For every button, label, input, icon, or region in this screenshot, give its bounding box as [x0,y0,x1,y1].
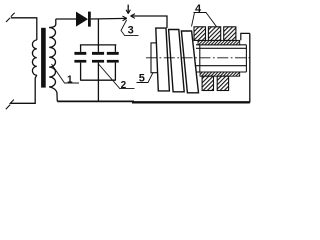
svg-text:1: 1 [67,75,73,86]
svg-text:2: 2 [121,80,127,91]
svg-text:4: 4 [195,3,202,15]
svg-text:3: 3 [128,25,134,37]
svg-text:5: 5 [139,73,145,85]
